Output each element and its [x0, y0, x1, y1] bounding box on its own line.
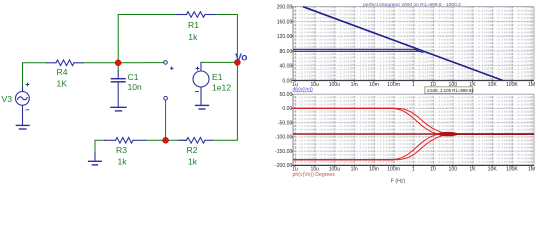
phase -180 deg overlapped flat segment — [293, 159, 394, 161]
svg-text:100u: 100u — [329, 82, 340, 88]
svg-text:R3: R3 — [116, 145, 127, 155]
svg-text:Vo: Vo — [235, 53, 248, 64]
svg-text:10K: 10K — [488, 82, 498, 88]
svg-text:1k: 1k — [188, 32, 198, 42]
svg-text:1k: 1k — [118, 157, 128, 167]
V3 minus mark — [26, 109, 29, 111]
svg-text:E1: E1 — [212, 72, 223, 82]
svg-text:ph(v(Vo)) Degrees: ph(v(Vo)) Degrees — [293, 172, 336, 178]
E1 plus mark — [196, 67, 199, 70]
wire E1 output to Vo node — [201, 61, 237, 63]
svg-text:1: 1 — [412, 167, 415, 173]
wire R3 to left ground drop — [95, 140, 105, 152]
top plot axis ticks — [291, 7, 531, 83]
svg-text:100K: 100K — [506, 167, 518, 173]
wire R4 to node A — [83, 62, 118, 64]
resistor R2 — [179, 138, 212, 144]
wire node A to E1 plus input — [118, 62, 163, 64]
svg-text:R1: R1 — [188, 20, 199, 30]
svg-text:F (Hz): F (Hz) — [391, 179, 406, 185]
ground left of R3 — [94, 152, 96, 161]
svg-text:10K: 10K — [488, 167, 498, 173]
svg-text:120.00: 120.00 — [277, 34, 293, 40]
wire node B to R3 — [145, 139, 166, 141]
svg-text:C1: C1 — [128, 72, 139, 82]
wire node A down to C1 — [117, 63, 119, 71]
svg-text:-200.00: -200.00 — [275, 163, 292, 169]
voltage source V3 — [16, 86, 30, 125]
svg-text:160.00: 160.00 — [277, 19, 293, 25]
svg-text:1m: 1m — [351, 82, 358, 88]
E1 plus input terminal — [164, 61, 168, 65]
svg-text:80.00: 80.00 — [280, 49, 293, 55]
phase exact -90 deg curve — [293, 133, 534, 135]
cursor readout box — [425, 87, 475, 94]
bottom plot axis ticks — [291, 94, 531, 167]
bottom plot x axis labels — [292, 167, 535, 173]
resistor R3 — [105, 138, 146, 144]
top magnitude plot grid — [293, 7, 534, 81]
svg-text:100K: 100K — [506, 82, 518, 88]
svg-text:1M: 1M — [528, 82, 535, 88]
svg-text:R2: R2 — [187, 145, 198, 155]
node A junction dot — [115, 60, 121, 66]
E1 minus input terminal — [164, 96, 168, 100]
phase curves from 0 deg (R1 low family) — [293, 108, 534, 134]
svg-text:-100.00: -100.00 — [275, 135, 292, 141]
svg-text:10: 10 — [430, 167, 436, 173]
capacitor C1 — [112, 71, 126, 107]
top plot y axis labels — [277, 5, 293, 85]
svg-text:100: 100 — [449, 167, 458, 173]
magnitude integrator diagonal — [303, 7, 503, 81]
svg-text:R4: R4 — [57, 67, 68, 77]
converged thick -90 line — [444, 133, 534, 135]
phase 0 deg overlapped flat segment — [293, 107, 394, 109]
svg-text:1: 1 — [412, 82, 415, 88]
E1 minus mark — [196, 91, 199, 93]
wire Vo down right side to R2 — [212, 62, 237, 140]
wire node B up to E1 minus input — [165, 100, 167, 140]
bottom plot y axis labels — [275, 92, 292, 169]
svg-text:200.00: 200.00 — [277, 5, 293, 11]
E1 input plus mark — [170, 67, 173, 70]
svg-text:V3: V3 — [2, 94, 13, 104]
svg-text:1e12: 1e12 — [212, 83, 231, 93]
ground below C1 — [111, 106, 126, 108]
V3 plus mark — [26, 83, 29, 86]
svg-text:10m: 10m — [369, 82, 379, 88]
ground below V3 — [16, 124, 29, 126]
svg-text:1m: 1m — [351, 167, 358, 173]
bottom phase plot grid — [293, 94, 534, 165]
svg-text:dB(v(Vo)): dB(v(Vo)) — [293, 87, 314, 93]
svg-text:0.00: 0.00 — [282, 78, 292, 84]
svg-text:100m: 100m — [387, 167, 400, 173]
svg-text:0.00: 0.00 — [282, 106, 292, 112]
ground below E1 — [196, 104, 209, 106]
svg-text:4.545, 1.105 R1=999.82: 4.545, 1.105 R1=999.82 — [427, 88, 475, 93]
node Vo junction dot — [234, 59, 240, 65]
wire R2 to node B — [166, 139, 187, 141]
wire node A up and across top to Vo branch — [118, 15, 176, 63]
svg-text:10m: 10m — [369, 167, 379, 173]
top plot x axis labels — [292, 82, 535, 88]
wire V3 top to R4 — [23, 63, 48, 86]
resistor R1 — [177, 12, 216, 18]
svg-text:10n: 10n — [128, 82, 143, 92]
controlled source E1 — [193, 62, 209, 105]
svg-text:40.00: 40.00 — [280, 64, 293, 70]
svg-text:1K: 1K — [469, 167, 476, 173]
svg-text:1k: 1k — [188, 157, 198, 167]
svg-text:1M: 1M — [528, 167, 535, 173]
phase curves from -180 deg (R1 high family) — [293, 134, 534, 160]
svg-text:100m: 100m — [387, 82, 400, 88]
svg-text:50.00: 50.00 — [280, 92, 293, 98]
svg-text:-50.00: -50.00 — [278, 121, 293, 127]
resistor R4 — [47, 60, 83, 66]
svg-text:perfect integrator v000 on R1=: perfect integrator v000 on R1=999.8 - 10… — [363, 2, 461, 8]
svg-text:-150.00: -150.00 — [275, 149, 292, 155]
magnitude flat curves (R1 mismatch family) — [293, 49, 418, 51]
svg-text:1K: 1K — [57, 79, 68, 89]
node B junction dot — [163, 137, 169, 143]
